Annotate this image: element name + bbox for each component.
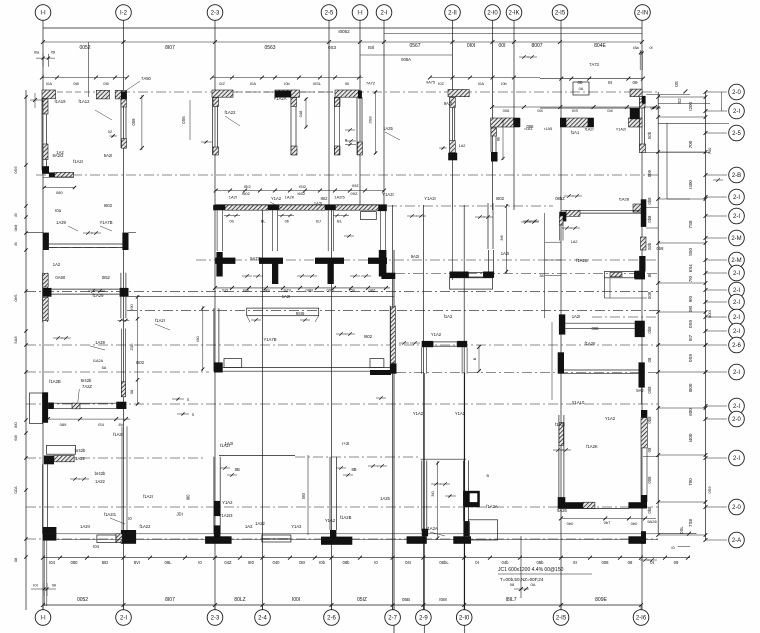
svg-text:2-I: 2-I [380,11,387,17]
svg-text:SZI: SZI [222,288,228,293]
svg-text:700: 700 [707,147,712,154]
svg-text:8I0: 8I0 [13,421,18,427]
svg-text:9A26: 9A26 [647,519,657,524]
svg-text:700: 700 [688,140,693,148]
svg-text:2-I: 2-I [733,315,740,321]
svg-text:I0052: I0052 [338,29,350,34]
svg-text:5A2I: 5A2I [104,153,113,158]
svg-text:I5I: I5I [51,50,55,55]
svg-text:2-I6: 2-I6 [636,616,647,622]
svg-text:S2: S2 [677,98,682,104]
svg-text:0567: 0567 [409,43,420,49]
svg-text:2-A: 2-A [732,538,741,544]
svg-text:008A: 008A [401,57,411,62]
svg-text:0I8: 0I8 [73,81,79,86]
svg-text:0I7: 0I7 [688,334,693,341]
svg-text:8I0: 8I0 [248,560,254,565]
svg-text:br42b: br42b [95,471,106,476]
svg-text:I200: I200 [688,102,693,111]
svg-text:2-0: 2-0 [732,90,741,96]
svg-text:1A2I: 1A2I [282,294,291,299]
svg-text:I80: I80 [186,494,191,500]
svg-text:38: 38 [539,274,543,278]
svg-text:I0b: I0b [284,81,290,86]
svg-text:2-6: 2-6 [732,343,741,349]
svg-text:0S3: 0S3 [328,45,337,50]
svg-text:0I0I: 0I0I [467,43,475,49]
svg-text:I0A: I0A [46,81,52,86]
svg-text:I0I: I0I [345,81,349,86]
svg-text:0I4: 0I4 [607,108,613,113]
svg-text:8007: 8007 [531,43,542,49]
svg-text:S0b: S0b [647,131,652,139]
svg-text:08bL: 08bL [306,288,316,293]
svg-text:f1A2B: f1A2B [49,379,61,384]
svg-text:2-0: 2-0 [732,505,741,511]
svg-text:2-5: 2-5 [325,11,334,17]
svg-text:B: B [487,474,490,478]
svg-text:2-M: 2-M [731,258,741,264]
svg-text:f1A2B: f1A2B [576,258,588,263]
svg-text:0A90: 0A90 [55,275,65,280]
svg-text:9A77: 9A77 [250,256,260,261]
svg-text:9A2I: 9A2I [444,101,453,106]
svg-text:Z0b: Z0b [129,343,134,351]
svg-text:0052: 0052 [77,597,88,603]
svg-text:804E: 804E [594,43,606,49]
svg-text:1A22: 1A22 [255,521,265,526]
svg-text:089: 089 [60,422,67,427]
svg-text:Y1A2: Y1A2 [605,416,616,421]
svg-text:0S9: 0S9 [326,288,334,293]
svg-text:I0S: I0S [572,108,578,113]
svg-text:0563: 0563 [264,45,275,51]
svg-text:Y1A2: Y1A2 [222,500,233,505]
svg-text:0b: 0b [229,219,234,224]
svg-text:09: 09 [674,560,679,565]
svg-text:08: 08 [129,389,134,394]
svg-text:2-3: 2-3 [211,11,220,17]
svg-text:BL: BL [261,219,267,224]
svg-text:6S4: 6S4 [688,264,693,273]
svg-text:2-I: 2-I [733,300,740,306]
svg-text:S: S [187,398,190,402]
svg-text:SZ9: SZ9 [283,288,291,293]
svg-text:2-7: 2-7 [388,616,397,622]
svg-text:I0a: I0a [55,208,61,213]
svg-text:08: 08 [647,357,652,362]
svg-text:f1A2A: f1A2A [486,504,498,509]
svg-text:2-I5: 2-I5 [556,616,567,622]
svg-text:1A2: 1A2 [459,144,466,148]
svg-text:0b8: 0b8 [13,224,18,231]
svg-text:Y1A2: Y1A2 [271,196,282,201]
svg-text:f1A2I: f1A2I [585,128,594,132]
svg-text:08I: 08I [688,306,693,312]
svg-text:809E: 809E [595,597,607,603]
svg-text:6I8: 6I8 [13,434,18,440]
svg-text:f5I2: f5I2 [244,184,251,189]
svg-text:3S8: 3S8 [368,116,373,124]
svg-text:8I07: 8I07 [165,45,175,51]
svg-text:700: 700 [688,478,693,486]
svg-text:2-I: 2-I [733,370,740,376]
svg-text:0b8: 0b8 [647,506,652,514]
svg-text:f1A2I: f1A2I [155,318,165,323]
svg-text:7S8: 7S8 [688,220,693,229]
svg-text:0b8: 0b8 [647,215,652,223]
svg-text:B: B [472,357,477,360]
svg-text:I0Z: I0Z [438,81,444,86]
svg-text:8I: 8I [13,213,18,216]
svg-text:f1A22: f1A22 [225,110,237,115]
svg-text:08: 08 [510,582,515,587]
svg-text:1A2I: 1A2I [229,195,237,200]
svg-text:9A26: 9A26 [557,508,567,513]
svg-text:1A25: 1A25 [383,126,393,131]
svg-text:I84: I84 [243,288,249,293]
svg-text:1A2: 1A2 [245,524,253,529]
svg-text:1A2I: 1A2I [225,441,234,446]
svg-text:08: 08 [13,557,18,562]
svg-text:1A22: 1A22 [95,479,105,484]
svg-text:8I: 8I [647,274,652,278]
svg-text:Y1A7B: Y1A7B [263,337,276,342]
svg-text:08bZ: 08bZ [555,196,565,201]
svg-text:1A2I5: 1A2I5 [334,195,345,200]
svg-text:2-II: 2-II [448,11,457,17]
svg-text:I04: I04 [49,560,55,565]
svg-text:Y1A2: Y1A2 [455,411,466,416]
svg-text:8r42b: 8r42b [81,378,92,383]
svg-text:00I: 00I [499,43,506,49]
svg-text:0b0: 0b0 [631,521,638,526]
svg-text:8I: 8I [573,560,577,565]
svg-text:8I: 8I [608,80,612,85]
svg-text:f1A12: f1A12 [79,99,91,104]
svg-text:f1A22: f1A22 [140,524,152,529]
svg-text:I0I8: I0I8 [439,597,447,602]
svg-text:I602: I602 [364,334,373,339]
svg-text:2-I: 2-I [733,288,740,294]
svg-text:080: 080 [71,560,79,565]
svg-text:7A73: 7A73 [589,62,599,67]
svg-text:0b8: 0b8 [647,197,652,205]
svg-text:800I: 800I [707,310,712,318]
svg-text:2-3: 2-3 [211,616,220,622]
svg-text:Y1A2I: Y1A2I [616,128,626,132]
svg-text:I59: I59 [349,288,355,293]
svg-text:1A29: 1A29 [95,340,105,345]
svg-text:2-4: 2-4 [258,616,267,622]
svg-text:2-M: 2-M [731,236,741,242]
svg-text:1A2I: 1A2I [572,314,581,319]
svg-text:2-I: 2-I [733,456,740,462]
svg-text:08b: 08b [343,560,351,565]
svg-text:08: 08 [577,80,583,85]
svg-text:I1A2A: I1A2A [93,359,104,363]
svg-text:0I5: 0I5 [103,81,109,86]
svg-text:1A2K: 1A2K [285,195,295,200]
svg-text:80LZ: 80LZ [234,597,245,603]
svg-text:2-I: 2-I [733,329,740,335]
svg-text:BJ: BJ [316,219,321,224]
svg-text:I-I: I-I [357,11,363,17]
svg-text:S0b: S0b [647,242,652,250]
svg-text:2-5: 2-5 [732,131,741,137]
svg-text:S: S [192,413,195,417]
svg-text:I8a: I8a [633,45,639,50]
svg-text:9A2I2: 9A2I2 [53,153,65,158]
svg-text:S4S: S4S [262,288,270,293]
svg-text:I-I: I-I [40,11,46,17]
svg-text:9I0: 9I0 [688,295,693,302]
svg-text:I5Il: I5Il [368,45,374,50]
svg-text:1A22: 1A22 [75,456,85,461]
svg-text:JC1 600x1200 4.4% 00@150: JC1 600x1200 4.4% 00@150 [498,567,564,573]
svg-text:f1A2I: f1A2I [143,494,153,499]
svg-text:2-I: 2-I [733,195,740,201]
svg-text:Y1A2: Y1A2 [291,524,302,529]
svg-text:1A2: 1A2 [53,262,61,267]
svg-text:I0A: I0A [250,81,256,86]
svg-text:I90: I90 [129,303,134,309]
svg-text:f1A29: f1A29 [93,293,105,298]
svg-text:09Z: 09Z [352,183,359,188]
svg-text:008: 008 [647,386,652,394]
svg-text:5A: 5A [102,366,107,370]
svg-text:0bS: 0bS [13,294,18,301]
svg-text:008: 008 [647,291,652,299]
svg-text:8B: 8B [235,467,240,472]
svg-text:I602: I602 [496,196,505,201]
svg-text:7I0: 7I0 [688,275,693,282]
svg-text:1A2I: 1A2I [314,201,323,206]
svg-text:f1A2: f1A2 [444,314,453,319]
svg-text:2-IN: 2-IN [637,11,648,17]
svg-text:0I: 0I [475,560,479,565]
svg-text:f1A2II: f1A2II [585,341,596,346]
svg-text:9A75: 9A75 [426,81,435,85]
svg-text:f1A2I: f1A2I [555,422,565,427]
svg-text:8I: 8I [13,242,18,245]
svg-text:0IZ: 0IZ [219,81,225,86]
svg-text:0b9: 0b9 [647,169,652,177]
svg-text:1A29: 1A29 [56,220,66,225]
svg-text:f1A2A: f1A2A [426,526,438,531]
svg-text:f1A2I1: f1A2I1 [104,512,117,517]
svg-text:2-9: 2-9 [419,616,428,622]
svg-text:0A: 0A [579,87,584,91]
svg-text:0b8: 0b8 [657,246,665,251]
svg-text:7A7Z: 7A7Z [366,82,376,86]
svg-text:I04: I04 [93,544,99,549]
svg-text:8B: 8B [351,467,356,472]
svg-text:080: 080 [56,190,63,195]
svg-text:0S: 0S [674,81,679,87]
svg-text:0b8: 0b8 [647,416,652,424]
svg-text:04b: 04b [502,560,510,565]
svg-text:05B: 05B [402,597,410,602]
svg-text:04I: 04I [405,560,411,565]
svg-text:059: 059 [131,118,136,126]
svg-text:0052: 0052 [79,45,90,51]
svg-text:7A50: 7A50 [141,76,151,81]
svg-text:f1A2K: f1A2K [586,444,598,449]
svg-text:0b7: 0b7 [604,520,611,525]
svg-text:Y1A2I: Y1A2I [424,196,435,201]
svg-text:2-IK: 2-IK [508,11,519,17]
svg-text:r1A5: r1A5 [544,127,552,131]
svg-text:I602: I602 [297,191,306,196]
svg-text:I502: I502 [136,360,145,365]
svg-text:I0b: I0b [501,81,507,86]
svg-text:T=00b,50,NZ=00F,24: T=00b,50,NZ=00F,24 [500,577,544,582]
svg-text:0S6: 0S6 [181,116,186,124]
svg-text:2-B: 2-B [732,173,741,179]
svg-text:I9I: I9I [52,583,56,588]
svg-text:Y1A2: Y1A2 [413,411,424,416]
svg-text:Y1A7B: Y1A7B [99,220,112,225]
svg-text:08L: 08L [165,560,173,565]
svg-text:0I: 0I [649,45,652,50]
svg-text:600: 600 [688,408,693,416]
svg-text:1A2I: 1A2I [501,251,510,256]
svg-text:8b: 8b [497,137,501,141]
svg-text:1A2: 1A2 [571,240,578,244]
svg-text:008: 008 [647,476,652,484]
svg-text:2-I: 2-I [733,109,740,115]
svg-text:0ZA: 0ZA [13,486,18,494]
svg-text:2-I: 2-I [733,214,740,220]
svg-text:008: 008 [592,326,600,331]
svg-text:Y1A2: Y1A2 [431,332,442,337]
svg-text:3I0: 3I0 [430,490,435,496]
svg-text:0I52: 0I52 [102,275,111,280]
svg-text:B: B [345,139,348,143]
svg-text:8V: 8V [119,422,124,427]
svg-text:040: 040 [273,560,281,565]
svg-text:2-I: 2-I [120,616,127,622]
svg-text:09: 09 [632,80,638,85]
svg-text:006: 006 [503,108,510,113]
svg-text:2-I5: 2-I5 [555,11,566,17]
svg-text:8ID: 8ID [102,560,109,565]
svg-text:I602: I602 [242,191,251,196]
svg-text:0A: 0A [531,582,536,587]
svg-text:2-I0: 2-I0 [487,11,498,17]
svg-text:I-I: I-I [40,616,46,622]
svg-text:f1A1: f1A1 [571,130,580,135]
svg-text:7A2Z: 7A2Z [82,384,92,389]
svg-text:br42b: br42b [75,448,86,453]
svg-text:Y1AL0: Y1AL0 [572,400,585,405]
svg-text:I602: I602 [104,203,113,208]
svg-text:04Z: 04Z [224,560,232,565]
svg-text:0S6: 0S6 [13,166,18,174]
svg-text:08: 08 [628,560,633,565]
svg-text:f1A2B: f1A2B [340,515,352,520]
svg-text:0Z: 0Z [108,130,113,134]
svg-text:9SI5: 9SI5 [296,311,305,316]
svg-text:2-0: 2-0 [732,417,741,423]
svg-text:2-I: 2-I [733,271,740,277]
svg-text:0I4: 0I4 [537,108,543,113]
svg-text:0b8: 0b8 [647,326,652,334]
svg-text:I0I: I0I [33,583,37,588]
svg-text:08I: 08I [299,560,305,565]
svg-text:Y1A2: Y1A2 [325,518,336,523]
svg-text:048: 048 [298,110,303,117]
svg-text:08: 08 [647,447,652,452]
svg-text:I80: I80 [195,335,200,341]
svg-text:9A2: 9A2 [636,388,644,393]
svg-text:I400: I400 [688,180,693,189]
svg-text:f5I2: f5I2 [299,184,306,189]
svg-text:I0SL: I0SL [313,81,322,86]
svg-text:f1A2I: f1A2I [113,432,123,437]
svg-text:I80: I80 [301,492,306,498]
svg-text:I00I: I00I [292,597,300,603]
svg-text:1A2II: 1A2II [80,524,90,529]
svg-text:Y1A2I: Y1A2I [382,192,393,197]
svg-text:Y1A2A: Y1A2A [273,96,286,101]
svg-text:I0A: I0A [478,81,484,86]
svg-text:I0b: I0b [319,560,325,565]
svg-text:I-2: I-2 [120,11,128,17]
svg-text:0b: 0b [285,219,290,224]
svg-text:2-I: 2-I [733,404,740,410]
svg-text:0S9: 0S9 [688,320,693,329]
svg-text:9A2I: 9A2I [411,254,420,259]
svg-text:f1A2I: f1A2I [73,159,83,164]
svg-text:008: 008 [602,560,610,565]
svg-text:05IZ: 05IZ [357,597,367,603]
svg-text:08b: 08b [537,560,545,565]
svg-text:S50: S50 [688,248,693,257]
svg-text:0b0: 0b0 [567,521,574,526]
svg-text:09Z: 09Z [351,191,358,196]
svg-text:JDI: JDI [176,512,182,517]
svg-text:7S8: 7S8 [688,519,693,528]
svg-text:0S9: 0S9 [688,354,693,363]
svg-text:8VI: 8VI [134,560,140,565]
svg-text:2-6: 2-6 [327,616,336,622]
svg-text:I0a: I0a [34,50,40,55]
svg-text:Y1A2I3: Y1A2I3 [219,513,233,518]
svg-text:2-I0: 2-I0 [459,616,470,622]
svg-text:08bL: 08bL [439,560,449,565]
svg-text:08Z: 08Z [369,288,376,293]
svg-text:1A25: 1A25 [380,496,390,501]
svg-text:8I07: 8I07 [165,597,175,603]
svg-text:006: 006 [527,124,535,129]
svg-text:0SL: 0SL [679,526,684,534]
svg-text:f1A2B: f1A2B [619,198,630,202]
svg-text:f1A19: f1A19 [55,99,67,104]
svg-text:IS4: IS4 [98,422,105,427]
svg-text:I400: I400 [688,433,693,442]
svg-text:0S9: 0S9 [707,486,712,494]
svg-text:5A8: 5A8 [13,336,18,344]
svg-text:r+2I: r+2I [342,441,349,446]
svg-text:3I6: 3I6 [499,234,504,240]
svg-text:I500: I500 [688,383,693,392]
svg-text:BL: BL [337,219,343,224]
svg-text:I8IL7: I8IL7 [505,597,516,603]
